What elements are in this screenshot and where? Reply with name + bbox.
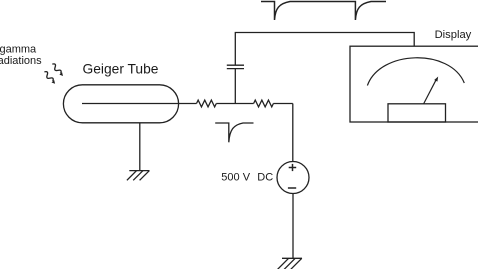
svg-text:radiations: radiations — [0, 55, 42, 67]
svg-text:500 V: 500 V — [221, 172, 250, 184]
svg-text:gamma: gamma — [0, 43, 37, 55]
wire corner down to battery — [292, 104, 294, 162]
capacitor C1 — [227, 65, 244, 68]
anode wire (tube to resistor R1) — [82, 103, 197, 105]
pulse waveform symbol (at junction) — [215, 123, 253, 142]
resistor R2 — [254, 100, 274, 107]
wire R2 to corner — [273, 103, 293, 105]
ground (below battery) — [278, 258, 302, 269]
display box — [350, 46, 478, 122]
minus symbol — [288, 187, 296, 189]
gamma ray wavy arrow 2 — [43, 71, 57, 86]
meter scale arc — [367, 58, 464, 86]
junction wire up to capacitor — [234, 69, 236, 104]
label "gamma radiations" — [0, 43, 42, 67]
meter needle — [424, 77, 439, 104]
ground (below tube) — [127, 171, 149, 181]
svg-text:Geiger Tube: Geiger Tube — [83, 61, 159, 76]
Geiger tube body — [63, 85, 178, 123]
wire capacitor to display — [235, 33, 414, 66]
svg-text:Display: Display — [435, 29, 472, 41]
wire battery to ground — [292, 194, 294, 259]
output pulse waveform (top) — [261, 2, 386, 21]
plus symbol — [289, 164, 297, 171]
gamma ray wavy arrow 1 — [51, 63, 65, 78]
meter base block — [388, 104, 446, 122]
wire R1 to R2 through junction — [216, 103, 253, 105]
svg-text:DC: DC — [257, 172, 273, 184]
resistor R1 — [197, 100, 217, 107]
battery 500V DC source circle — [277, 162, 309, 194]
cathode wire (tube to ground) — [139, 123, 141, 171]
